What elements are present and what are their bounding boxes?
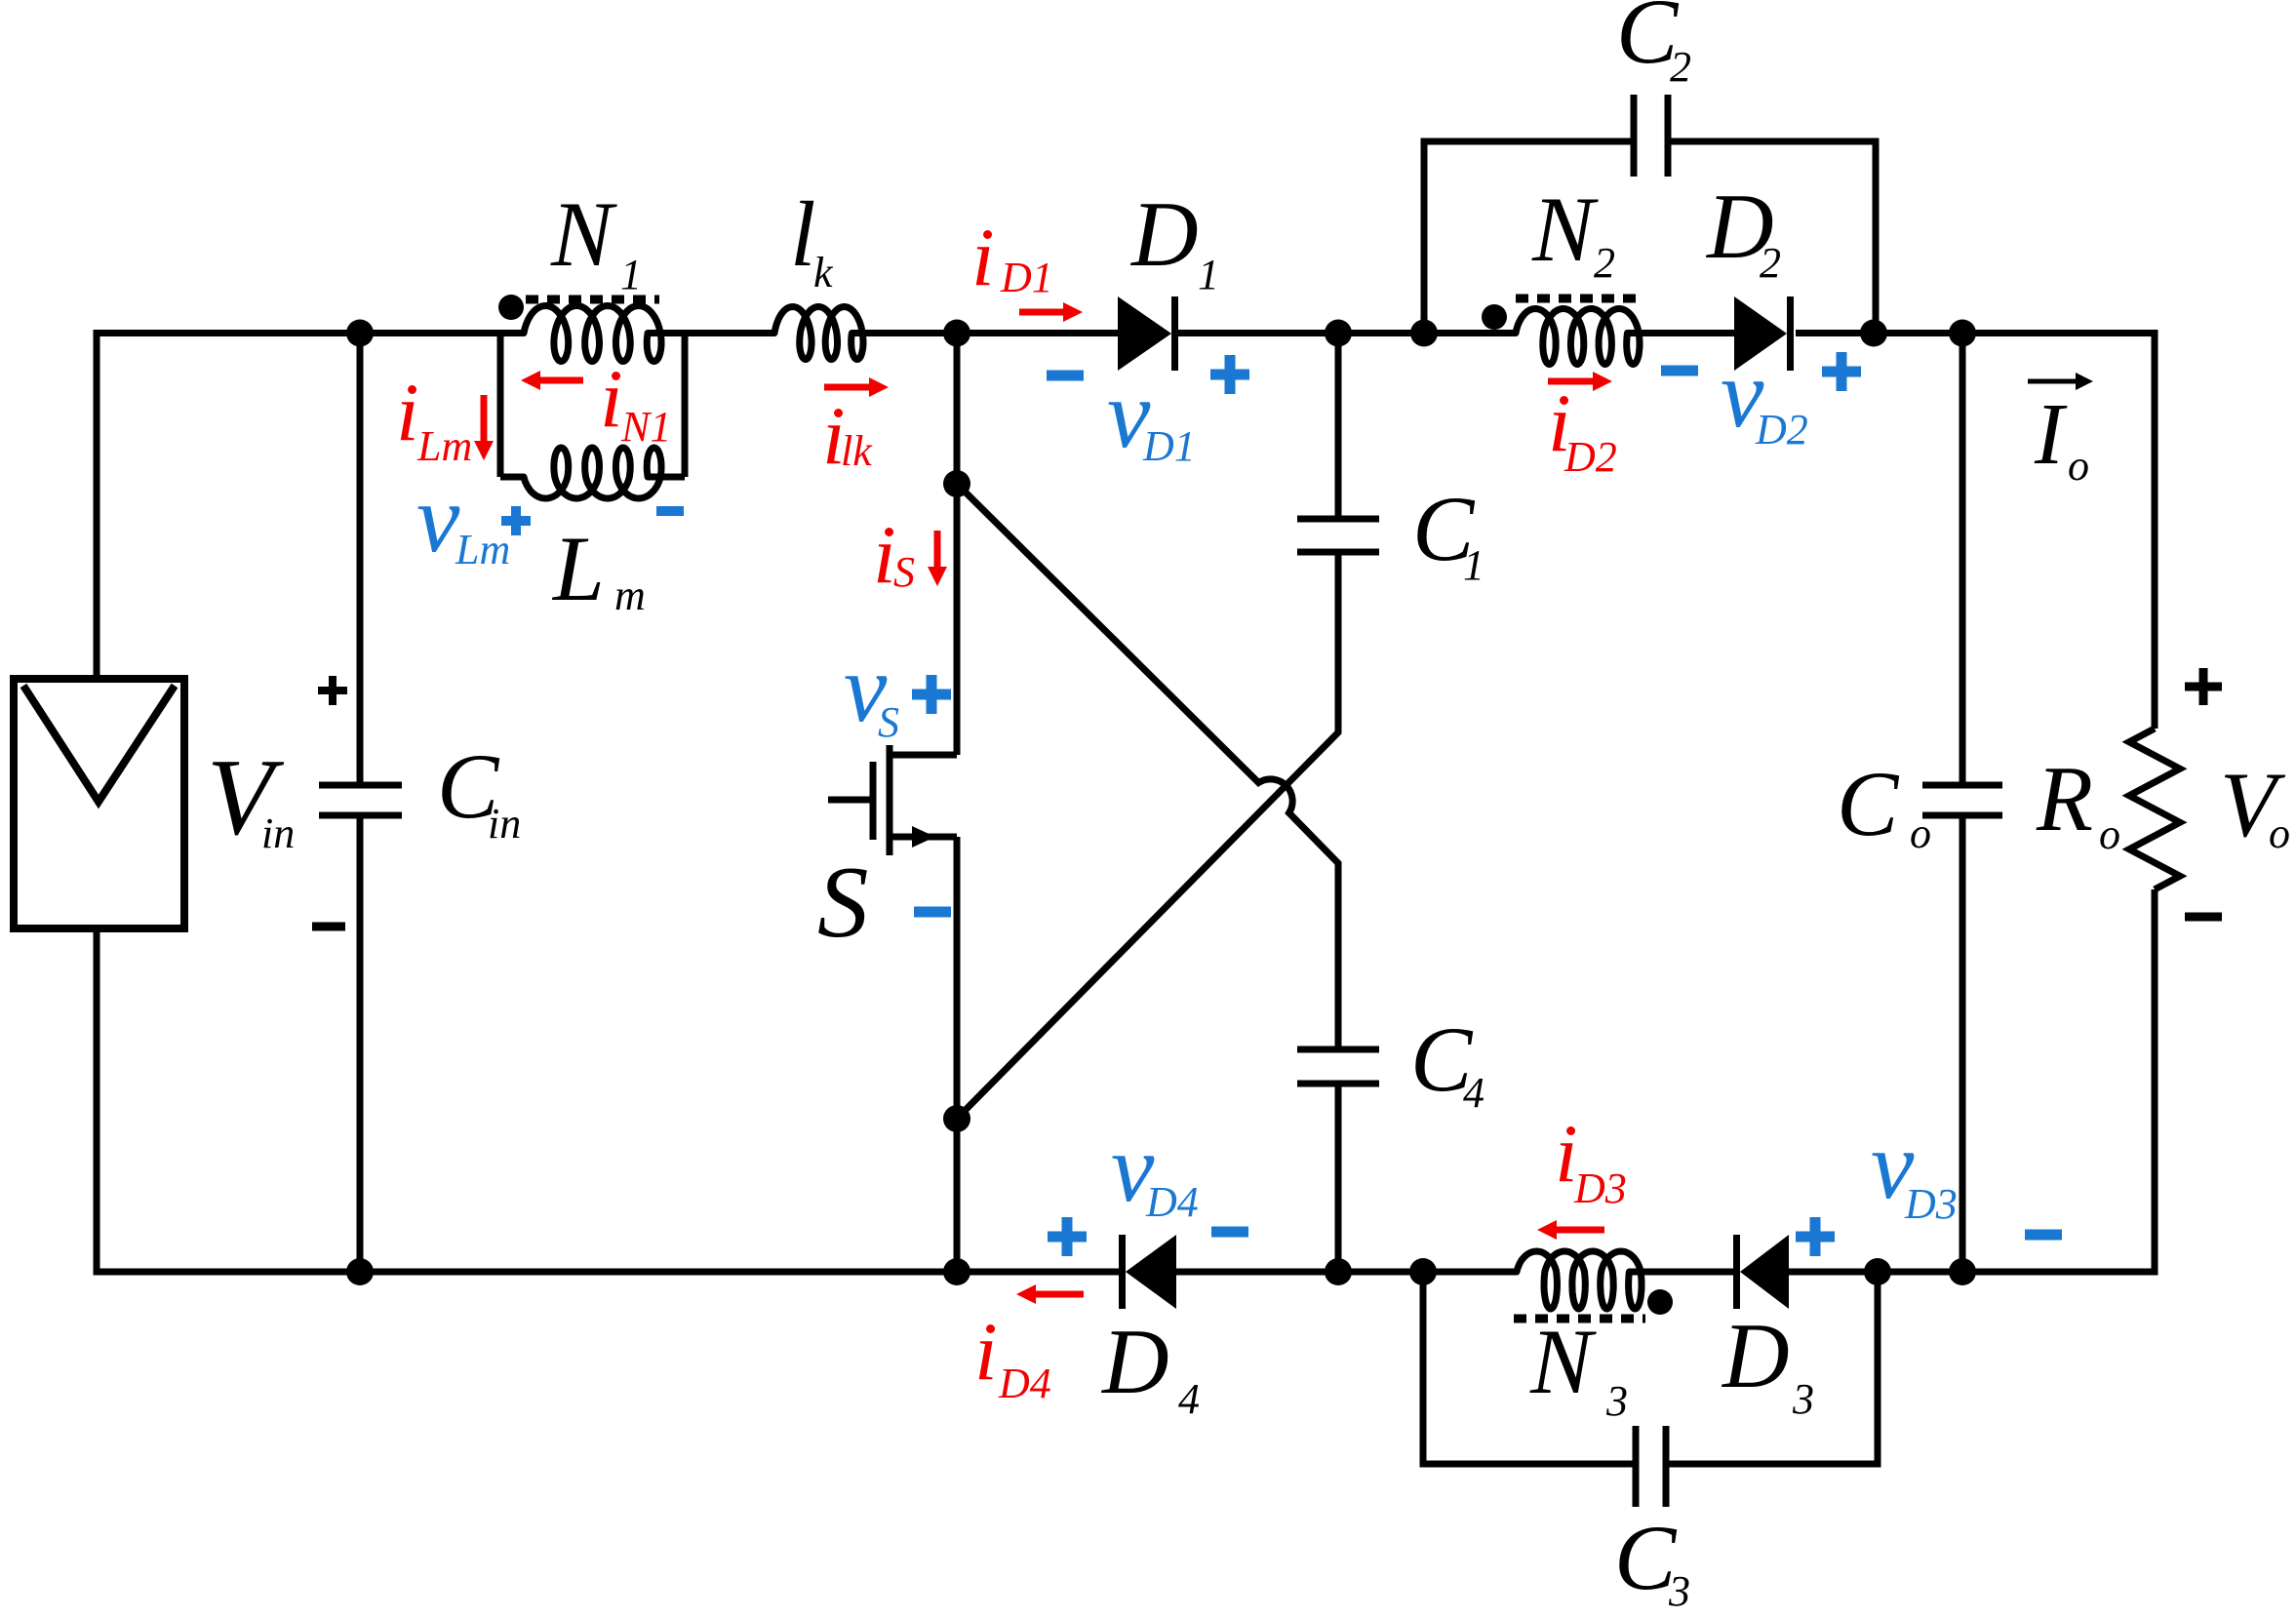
svg-text:in: in bbox=[488, 800, 521, 848]
svg-text:S: S bbox=[878, 698, 899, 746]
svg-text:N1: N1 bbox=[620, 403, 671, 451]
svg-text:o: o bbox=[2068, 442, 2089, 490]
svg-text:N: N bbox=[1529, 1310, 1597, 1413]
svg-text:2: 2 bbox=[1760, 239, 1781, 287]
svg-text:D1: D1 bbox=[1000, 254, 1053, 301]
svg-text:S: S bbox=[893, 548, 915, 596]
svg-text:D: D bbox=[1721, 1304, 1790, 1407]
svg-text:1: 1 bbox=[1463, 541, 1484, 589]
svg-text:i: i bbox=[971, 212, 995, 303]
svg-text:L: L bbox=[551, 517, 605, 620]
svg-text:o: o bbox=[2099, 810, 2120, 858]
svg-text:Lm: Lm bbox=[416, 422, 472, 470]
svg-text:I: I bbox=[2034, 386, 2068, 483]
svg-text:2: 2 bbox=[1594, 239, 1615, 287]
svg-text:D2: D2 bbox=[1755, 406, 1808, 454]
svg-text:N: N bbox=[550, 182, 617, 286]
svg-text:Lm: Lm bbox=[455, 526, 510, 573]
svg-text:D1: D1 bbox=[1142, 422, 1196, 470]
svg-text:o: o bbox=[1910, 809, 1931, 857]
svg-text:i: i bbox=[396, 367, 419, 458]
svg-text:i: i bbox=[974, 1306, 998, 1398]
svg-text:in: in bbox=[261, 809, 295, 857]
svg-text:D3: D3 bbox=[1904, 1180, 1958, 1228]
svg-text:D: D bbox=[1100, 1310, 1169, 1413]
svg-text:i: i bbox=[600, 353, 623, 445]
svg-text:4: 4 bbox=[1178, 1375, 1200, 1423]
svg-text:l: l bbox=[790, 182, 815, 286]
svg-text:S: S bbox=[817, 845, 869, 959]
svg-text:C: C bbox=[1837, 752, 1900, 855]
svg-text:3: 3 bbox=[1792, 1375, 1814, 1423]
svg-text:D: D bbox=[1129, 182, 1199, 286]
svg-text:D3: D3 bbox=[1573, 1164, 1627, 1212]
svg-text:D4: D4 bbox=[998, 1360, 1051, 1407]
svg-text:o: o bbox=[2269, 809, 2290, 857]
svg-text:4: 4 bbox=[1463, 1069, 1484, 1117]
svg-text:k: k bbox=[813, 249, 834, 296]
svg-text:N: N bbox=[1531, 178, 1599, 281]
svg-text:3: 3 bbox=[1668, 1567, 1690, 1615]
svg-text:R: R bbox=[2036, 747, 2093, 850]
svg-text:1: 1 bbox=[1198, 251, 1219, 298]
svg-text:lk: lk bbox=[841, 427, 873, 475]
svg-text:D4: D4 bbox=[1145, 1178, 1199, 1226]
svg-text:2: 2 bbox=[1670, 43, 1691, 91]
svg-text:v: v bbox=[416, 464, 460, 572]
svg-text:m: m bbox=[614, 572, 646, 619]
svg-text:3: 3 bbox=[1605, 1377, 1628, 1425]
svg-text:D2: D2 bbox=[1564, 433, 1617, 481]
svg-text:1: 1 bbox=[620, 251, 642, 298]
